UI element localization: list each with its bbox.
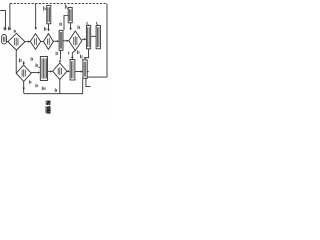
arrowhead into B3 top xyxy=(71,57,73,59)
process box T2 xyxy=(68,8,72,23)
wire T2 bottom to D4 xyxy=(70,23,72,29)
text in TR2 xyxy=(97,27,99,47)
label 78 xyxy=(20,58,21,62)
arrowhead entry wire xyxy=(4,28,6,30)
arrowhead into D2 xyxy=(28,41,30,43)
label 104 xyxy=(42,87,45,91)
wire stub into D5 top with arrow xyxy=(23,61,25,63)
wire D2 to D3 xyxy=(41,41,44,43)
wire D4 bottom to B3 top xyxy=(72,51,75,58)
wire B1 bottom to D6 top xyxy=(59,50,61,59)
arrowhead on D5 bottom wire xyxy=(23,88,25,90)
decision diamond D3 xyxy=(43,34,53,50)
wire D5 bottom to return line xyxy=(23,81,25,93)
label 86 with leader xyxy=(38,66,40,69)
label 90 xyxy=(56,52,57,56)
label 70 with leader xyxy=(67,8,68,9)
process box B3 xyxy=(70,60,75,81)
loop frame right line xyxy=(106,4,108,78)
wire B1 to D4 xyxy=(63,40,68,42)
wire stub B4 right edge xyxy=(87,71,89,73)
text in B1 xyxy=(60,32,61,49)
label 88 left of B3 wire xyxy=(68,52,70,55)
figure caption FIG. 7A rotated xyxy=(45,100,51,114)
wire B4 bottom exit xyxy=(86,78,91,86)
text in TR1 xyxy=(88,27,90,47)
arrowhead into D6 top xyxy=(59,61,61,63)
connector terminal L1 xyxy=(2,35,7,44)
process box B2 xyxy=(40,57,47,81)
arrowhead left frame wire xyxy=(9,28,11,30)
text in D5 xyxy=(22,69,25,77)
label 66 with leader xyxy=(45,9,47,10)
wire entry from left edge xyxy=(0,11,5,29)
label 72 xyxy=(60,22,61,26)
arrowhead TR1 to B4 xyxy=(84,57,86,59)
wire B3 to B4 xyxy=(75,71,82,73)
label 82 xyxy=(31,57,32,61)
label 74 xyxy=(45,27,46,31)
wire top loop into D2 xyxy=(35,4,37,28)
label 98 xyxy=(30,80,31,84)
wire TR1 bottom to B4 top xyxy=(85,49,89,59)
loop frame left line xyxy=(9,4,11,29)
loop frame bottom-right segment xyxy=(87,76,107,78)
text in B2 xyxy=(42,58,46,78)
wire D4 to TR1 xyxy=(82,38,85,40)
text in D4 xyxy=(74,36,77,46)
arrowhead into D2 top xyxy=(35,28,37,30)
arrowhead into TR1 xyxy=(84,38,86,40)
svg-text:FIG. 7A: FIG. 7A xyxy=(46,100,51,114)
label 76 xyxy=(78,25,79,29)
label 96 with leader xyxy=(81,58,84,59)
wire D6 bottom to return line xyxy=(59,79,61,93)
wire B2 to D6 xyxy=(48,70,52,72)
text in T2 xyxy=(69,9,71,21)
arrowhead into D3 top xyxy=(47,29,49,31)
decision diamond D1 xyxy=(8,33,25,50)
label 62 xyxy=(9,26,10,31)
text in B3 xyxy=(72,61,74,78)
label 58 with leader xyxy=(87,24,90,25)
wire D1 to D2 xyxy=(25,41,29,43)
wire D3 to process B1 xyxy=(53,40,57,42)
wire D6 to B3 xyxy=(67,70,69,72)
process box B1 xyxy=(59,30,63,50)
decision diamond D6 xyxy=(53,63,67,79)
process box T1 xyxy=(47,6,51,24)
arrowhead into B4 xyxy=(81,71,83,73)
arrowhead into B3 xyxy=(68,70,70,72)
text in L1 xyxy=(4,37,5,42)
text in D3 xyxy=(47,38,49,45)
label 60 with leader xyxy=(96,24,99,25)
decision diamond D4 xyxy=(69,31,82,51)
arrowhead into D5 top xyxy=(23,63,25,65)
loop frame top dashed line xyxy=(10,3,106,5)
label 64 xyxy=(3,27,5,31)
arrowhead into B2 xyxy=(38,72,40,74)
wire T2 to B1 top xyxy=(64,16,68,31)
wire D1 bottom to D5 xyxy=(15,50,17,73)
process box B4 xyxy=(83,60,87,78)
label 102 xyxy=(55,88,56,92)
label 100 xyxy=(36,84,37,88)
arrowhead T2 to D4 xyxy=(69,28,71,30)
text in D6 xyxy=(58,67,61,75)
wire TR1 to TR2 xyxy=(91,35,96,37)
wire L1 to D1 xyxy=(6,41,8,43)
text in T1 xyxy=(48,7,50,22)
label 94 xyxy=(78,50,79,54)
arrowhead into D6 xyxy=(51,70,53,72)
return wire along bottom xyxy=(24,93,83,95)
return wire right riser xyxy=(82,79,84,94)
wire D5 to B2 xyxy=(31,72,39,74)
decision diamond D2 xyxy=(30,34,40,50)
text in D2 xyxy=(35,38,37,45)
decision diamond D5 lower-left xyxy=(16,65,31,81)
text in B4 xyxy=(84,62,86,77)
label 72 stub above D1 xyxy=(14,30,15,33)
process box TR2 xyxy=(96,26,100,49)
arrowhead into D4 xyxy=(67,40,69,42)
arrowhead into B1 xyxy=(57,40,59,42)
wire T1 to D3 top xyxy=(48,24,50,30)
text in D1 xyxy=(14,38,18,46)
process box TR1 xyxy=(86,26,90,49)
